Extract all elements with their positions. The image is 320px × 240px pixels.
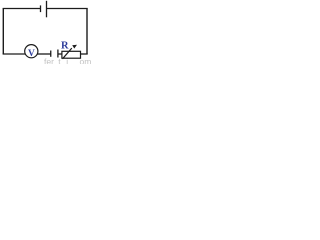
rheostat R body xyxy=(62,51,81,58)
wire bottom: voltmeter to capacitor xyxy=(37,53,50,55)
watermark text xyxy=(44,57,91,67)
svg-text:t: t xyxy=(58,57,61,64)
wire top right xyxy=(47,8,88,10)
wire left vertical xyxy=(2,9,4,55)
wire top left xyxy=(3,8,41,10)
svg-text:om: om xyxy=(80,57,92,64)
svg-text:fer: fer xyxy=(44,57,54,64)
capacitor left plate xyxy=(50,51,52,57)
wire bottom left xyxy=(3,53,26,55)
rheostat wiper arrow xyxy=(63,48,72,59)
wire right vertical xyxy=(86,9,88,55)
battery cell short plate (negative) xyxy=(40,5,42,12)
voltmeter V1 circle xyxy=(25,45,38,58)
capacitor right plate xyxy=(57,50,59,58)
wire bottom: rheostat to capacitor plate xyxy=(58,53,63,55)
svg-text:V: V xyxy=(28,49,35,59)
svg-text:R: R xyxy=(61,41,69,52)
rheostat arrowhead xyxy=(72,45,77,49)
wire bottom right xyxy=(80,53,88,55)
battery cell tall plate (positive) xyxy=(46,1,48,18)
